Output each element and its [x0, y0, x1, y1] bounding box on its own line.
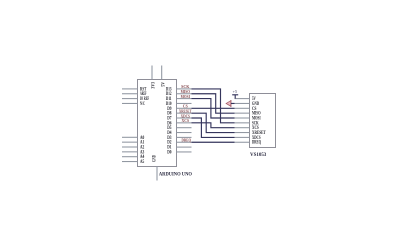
pin D5 (n/c stub) — [167, 126, 191, 131]
svg-text:VS1053: VS1053 — [250, 153, 267, 158]
svg-text:D0: D0 — [167, 150, 172, 155]
pin CS (VS1053) — [235, 107, 257, 112]
pin 5V (VS1053) — [235, 97, 257, 102]
svg-text:A5: A5 — [140, 160, 145, 165]
svg-text:3V3: 3V3 — [152, 81, 157, 88]
pin MISO (VS1053) — [235, 112, 261, 117]
svg-text:N/C: N/C — [140, 102, 145, 107]
pin MOSI (VS1053) — [235, 116, 261, 121]
pin A0 — [122, 136, 145, 141]
pin A5 — [122, 160, 145, 165]
arduino U1 body — [138, 80, 177, 167]
svg-text:+5: +5 — [233, 90, 237, 94]
wire D2 to DREQ — [192, 141, 235, 143]
pin A2 — [122, 145, 145, 150]
pin D13 — [166, 87, 192, 92]
wire D11 to MOSI — [192, 99, 235, 118]
svg-text:XCS: XCS — [182, 118, 190, 123]
svg-text:DREQ: DREQ — [252, 141, 261, 146]
wire D13 to SCK — [192, 89, 235, 123]
svg-text:MOSI: MOSI — [181, 94, 190, 99]
pin DREQ (VS1053) — [235, 141, 262, 146]
pin XDCS (VS1053) — [235, 136, 261, 141]
pin D3 (n/c stub) — [167, 136, 191, 141]
pin A3 — [122, 150, 145, 155]
pin XRESET (VS1053) — [235, 131, 267, 136]
svg-text:ARDUINO UNO: ARDUINO UNO — [159, 172, 192, 177]
svg-text:DREQ: DREQ — [182, 138, 192, 143]
pin D6 — [167, 121, 191, 126]
pin A1 — [122, 141, 145, 146]
pin XCS (VS1053) — [235, 126, 260, 131]
pin IO REF — [122, 97, 149, 102]
ground terminal — [226, 100, 234, 107]
pin GND (bottom) — [152, 155, 157, 181]
svg-text:5V: 5V — [161, 82, 166, 87]
pin D9 — [167, 107, 191, 112]
pin D11 — [166, 97, 192, 102]
pin N/C — [122, 102, 145, 107]
wire D9 to CS — [192, 107, 235, 109]
pin D10 (n/c stub) — [166, 102, 192, 107]
pin GND (VS1053) — [235, 102, 260, 107]
power terminal +5 — [232, 90, 238, 99]
pin 3V3 (top) — [152, 66, 157, 89]
pin D2 — [167, 141, 191, 146]
pin D4 (n/c stub) — [167, 131, 191, 136]
pin D0 (n/c stub) — [167, 150, 191, 155]
wire D8 to XRESET — [192, 113, 235, 132]
pin D7 — [167, 116, 191, 121]
pin RST — [122, 87, 147, 92]
pin D12 — [166, 92, 192, 97]
pin 5V (top) — [161, 66, 166, 87]
wire D6 to XCS — [192, 123, 235, 128]
wire D7 to XDCS — [192, 118, 235, 137]
svg-text:GND: GND — [152, 155, 157, 162]
pin D1 (n/c stub) — [167, 146, 191, 151]
pin SCK (VS1053) — [235, 121, 259, 126]
wire D12 to MISO — [192, 94, 235, 113]
pin A4 — [122, 155, 145, 160]
vs1053 U2 body — [250, 94, 276, 148]
pin D8 — [167, 112, 191, 117]
pin AREF — [122, 92, 147, 97]
